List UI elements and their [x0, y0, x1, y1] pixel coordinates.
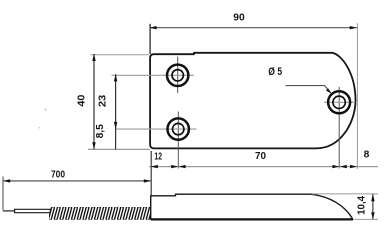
sensor body bottom edge (thick) [151, 218, 353, 220]
dimension 40 line [93, 54, 95, 149]
dimension 23 bottom arrow [114, 122, 117, 129]
dimension 40 top arrow [92, 54, 95, 61]
svg-text:8,5: 8,5 [95, 124, 106, 138]
svg-text:Ø 5: Ø 5 [268, 66, 282, 78]
plate bottom extension line (40 / 8,5) [88, 148, 150, 150]
diameter 5 leader arrow [326, 88, 331, 93]
bottom hole horizontal centerline / 8.5 extension [115, 128, 197, 130]
dimension 90 extension line left [149, 24, 151, 54]
dimension 23 top arrow [114, 74, 117, 81]
dimension 90 extension line right (long, down to bottom chain) [356, 23, 358, 169]
cable jacket [15, 209, 51, 212]
sensor body (side view) [151, 194, 353, 219]
dimension 700 right arrow [144, 179, 151, 182]
diameter 5 leader line [286, 86, 331, 93]
speck artifact 1 [45, 109, 47, 111]
bottom hole vertical centerline / extension to chain [177, 112, 179, 169]
dimension 90 left arrow [149, 26, 156, 29]
top hole outer circle [167, 65, 188, 86]
bottom dimension chain line (12 / 70 / 8) [149, 166, 378, 168]
right hole inner circle [333, 96, 345, 108]
dimension 10,4 line [372, 194, 374, 219]
dimension 23 line [115, 74, 117, 149]
right hole outer circle [328, 91, 350, 113]
dimension 10,4 top extension line [312, 193, 378, 195]
bottom hole outer circle [168, 118, 189, 139]
dimension 700 extension line left [2, 177, 4, 211]
dimension 10,4 bottom arrow [371, 212, 374, 219]
svg-text:23: 23 [98, 95, 109, 108]
dimension 10,4 top arrow [371, 194, 374, 201]
cable wire tip [3, 210, 16, 212]
chain right arrow at plate right edge [350, 165, 357, 168]
svg-text:90: 90 [233, 13, 245, 24]
svg-text:8: 8 [364, 149, 370, 160]
speck artifact 2 [39, 127, 41, 129]
svg-text:10,4: 10,4 [356, 196, 367, 215]
svg-text:700: 700 [51, 170, 65, 181]
top hole vertical centerline [177, 57, 179, 94]
left edge extension line between views [150, 151, 152, 196]
bottom hole inner circle [173, 123, 184, 134]
chain left arrow at plate edge [151, 165, 158, 168]
top hole horizontal centerline / 23 extension [112, 74, 195, 76]
chain crossed arrows at hole centerline [171, 165, 178, 168]
plate outline (top view) [150, 53, 355, 149]
chain crossed arrows at right hole centerline [332, 165, 339, 168]
dimension 90 line [149, 27, 357, 29]
svg-text:70: 70 [255, 151, 266, 162]
dimension 40 bottom arrow [92, 142, 95, 149]
top hole inner circle [172, 70, 183, 81]
dimension 700 left arrow [3, 179, 10, 182]
right hole horizontal centerline [324, 101, 355, 103]
dimension 90 right arrow [350, 26, 357, 29]
right hole vertical centerline / extension to chain [338, 87, 340, 169]
svg-text:12: 12 [154, 152, 162, 163]
dimension 700 line [3, 180, 151, 182]
dimension 10,4 bottom extension line [354, 218, 378, 220]
svg-text:40: 40 [77, 94, 88, 106]
dimension 40 top extension line [91, 54, 149, 56]
